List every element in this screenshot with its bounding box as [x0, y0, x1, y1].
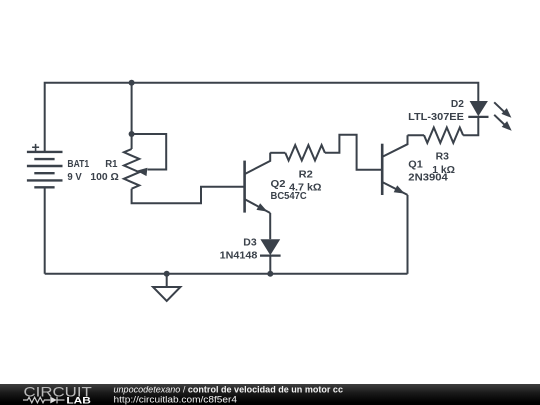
- diode D3 triangle: [260, 239, 280, 255]
- node: R1 top / wiper loop: [129, 131, 135, 137]
- wire: R1 wiper loop: [132, 134, 167, 170]
- transistor Q1 emitter line: [382, 182, 407, 195]
- LED D2 light arrow shafts: [494, 102, 505, 113]
- node: D3 / bottom rail junction: [267, 271, 273, 277]
- transistor Q2 emitter line: [245, 199, 271, 213]
- wire: R2 right to Q1 base (stepped): [325, 135, 382, 170]
- wire: R1 top branch from top rail: [131, 83, 133, 149]
- wire: top rail from battery + to D2 anode: [45, 83, 479, 152]
- wire: bottom ground rail: [45, 273, 408, 275]
- node: ground junction: [164, 271, 170, 277]
- transistor Q1 base bar: [381, 144, 384, 195]
- wire: R3 left lead: [408, 134, 425, 136]
- footer bar: [0, 384, 540, 405]
- svg-text:LAB: LAB: [66, 395, 91, 405]
- wire: Q2 emitter down to D3 anode: [269, 213, 271, 239]
- wire: battery negative down to bottom rail: [44, 187, 46, 273]
- wire: Q1 emitter down to bottom rail: [407, 195, 409, 274]
- ground symbol: [166, 274, 168, 287]
- LED D2 arrowhead 2: [502, 121, 512, 131]
- transistor Q2 emitter arrowhead: [257, 203, 268, 211]
- battery BAT1 plates: [27, 152, 63, 187]
- wire: R3 right lead to D2 cathode: [463, 117, 478, 135]
- transistor Q2 collector line: [245, 153, 271, 175]
- LED D2 triangle: [470, 101, 488, 116]
- node: junction top rail / R1: [129, 80, 135, 86]
- LED D2 arrowhead 1: [501, 108, 511, 118]
- transistor Q1 emitter arrowhead: [394, 185, 405, 193]
- resistor R1 (potentiometer body): [124, 149, 139, 189]
- resistor R3: [424, 128, 463, 143]
- wire: R2 left lead: [270, 152, 285, 154]
- logo mini resistor + diode: [23, 397, 65, 404]
- transistor Q2 base bar: [243, 161, 246, 213]
- transistor Q1 collector line: [382, 135, 407, 157]
- diode D2 cathode bar: [468, 116, 488, 118]
- resistor R2: [285, 145, 325, 160]
- wire: R1 bottom to Q2 base: [132, 187, 245, 204]
- svg-text:http://circuitlab.com/c8f5er4: http://circuitlab.com/c8f5er4: [114, 394, 238, 404]
- diode D3 cathode bar: [260, 255, 281, 257]
- potentiometer R1 wiper arrowhead: [137, 168, 148, 176]
- wire: D3 cathode to bottom rail: [269, 256, 271, 274]
- svg-text:unpocodetexano / control de ve: unpocodetexano / control de velocidad de…: [114, 384, 344, 394]
